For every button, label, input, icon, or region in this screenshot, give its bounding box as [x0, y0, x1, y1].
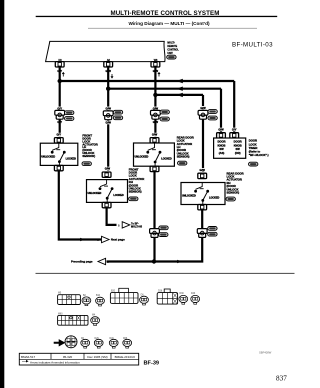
footer revision table	[19, 353, 138, 365]
junction node on bus 2	[106, 87, 110, 91]
bus 3 arrow	[177, 93, 183, 97]
header rule	[36, 16, 278, 17]
connector pin 1 on unit	[55, 62, 64, 67]
badge D6	[82, 162, 91, 166]
W1 label G/Y at door	[55, 133, 63, 137]
front RH component label	[129, 167, 144, 193]
front RH switch	[99, 180, 114, 203]
svg-text:Dec 1995 (SM): Dec 1995 (SM)	[87, 355, 107, 359]
flow arrow up	[158, 73, 160, 77]
rear RH switch	[194, 183, 209, 205]
connector view D26b oval	[94, 339, 103, 348]
svg-text:KNOB: KNOB	[234, 143, 242, 147]
door knob switch box	[214, 138, 246, 158]
rear RH component label	[227, 171, 244, 194]
svg-text:95-320: 95-320	[63, 355, 73, 359]
svg-text:(DR): (DR)	[235, 151, 241, 155]
rear RH lower inline connector	[197, 229, 207, 238]
bus wire 2 horizontal	[108, 88, 221, 90]
connector view D30 oval	[179, 295, 188, 304]
connector view D66 oval	[123, 339, 132, 348]
door knob SW pin DR	[230, 133, 239, 138]
svg-text:G/W: G/W	[200, 168, 206, 172]
svg-text:SENSOR): SENSOR)	[82, 154, 95, 158]
svg-text:G/Y: G/Y	[232, 128, 237, 132]
arrow on next page wire	[77, 238, 83, 241]
junction node on bus 1	[58, 79, 62, 83]
arrow on preceding wire	[174, 260, 180, 263]
badge M4	[160, 110, 169, 114]
bus 3 descent to rear door RH	[202, 95, 204, 111]
front LH door bottom connector	[54, 165, 63, 170]
control unit connector badge M60	[167, 55, 176, 59]
rear LH return wire down	[153, 171, 155, 262]
badge M60 timer	[249, 162, 258, 166]
badge D20	[160, 117, 169, 121]
door knob SW DR label	[234, 140, 242, 155]
flow arrow down	[111, 74, 113, 78]
W3 inline connector	[151, 110, 161, 119]
wire label G/Y	[56, 69, 64, 73]
next page triangle	[102, 236, 110, 242]
rear LH door bottom connector	[150, 166, 159, 171]
badge D30	[159, 233, 168, 237]
svg-text:G/W: G/W	[218, 128, 224, 132]
rear LH component label	[177, 135, 194, 158]
svg-text:D30: D30	[180, 293, 185, 295]
door knob SW AS label	[217, 140, 225, 155]
svg-text:SW: SW	[236, 147, 241, 151]
bus 1 arrow	[177, 79, 183, 83]
connector view M60 grid	[58, 315, 88, 325]
badge D26	[129, 197, 138, 201]
bus wire 3 horizontal	[155, 94, 203, 96]
bus 1 descent to door knob SW DR	[233, 81, 235, 133]
W2 label G/W above splice	[104, 107, 112, 111]
flow arrow up	[62, 73, 64, 77]
svg-text:BMA6-517: BMA6-517	[21, 355, 36, 359]
rear LH door lock actuator box	[134, 143, 175, 166]
connector view B20 grid	[110, 288, 138, 303]
bus 2 arrow	[177, 87, 183, 91]
svg-text:CONTROL: CONTROL	[167, 50, 179, 52]
svg-text:UNLOCKED: UNLOCKED	[41, 155, 55, 158]
wire W2 vertical	[107, 67, 109, 171]
to BF-MULTI-05 triangle	[122, 222, 130, 228]
svg-text:LOCKED: LOCKED	[209, 197, 220, 200]
junction node preceding wire	[152, 259, 156, 263]
rear RH drop label G/W	[199, 106, 207, 110]
W2 label G/W at door	[104, 167, 112, 171]
badge M5	[113, 110, 122, 114]
connector view M5 grid	[58, 295, 81, 305]
svg-text:UNLOCKED: UNLOCKED	[88, 192, 102, 195]
rear RH drop lower segment	[202, 119, 204, 172]
svg-text:BF-39: BF-39	[144, 360, 160, 366]
svg-text:SENSOR): SENSOR)	[227, 191, 240, 195]
badge B20	[159, 226, 168, 230]
rear RH return wire down	[154, 210, 202, 262]
svg-text:D40: D40	[191, 293, 196, 295]
svg-text:BMHE-2F10U0: BMHE-2F10U0	[115, 355, 136, 359]
badge D40	[208, 116, 217, 120]
svg-text:B10: B10	[96, 295, 101, 297]
W2 label G/W below splice	[104, 121, 112, 125]
connector pin 2 on unit	[104, 62, 113, 67]
connector view B2 round	[65, 336, 77, 348]
svg-text:B: B	[107, 260, 109, 264]
wire label G/W	[104, 69, 112, 73]
connector view D46 oval	[109, 339, 118, 348]
W1 label G/Y above splice	[56, 107, 64, 111]
subtitle rule	[88, 27, 257, 30]
svg-text:G/W: G/W	[106, 107, 112, 111]
svg-text:LOCKED: LOCKED	[113, 194, 124, 197]
svg-text:MULTI-05: MULTI-05	[131, 226, 143, 229]
svg-text:SBF408W: SBF408W	[259, 351, 272, 355]
rear LH lower inline connector	[150, 229, 160, 238]
svg-text:LOCKED: LOCKED	[161, 158, 172, 161]
front RH door bottom connector	[102, 202, 111, 207]
rear RH door lock actuator box	[181, 183, 225, 205]
svg-text:G/W: G/W	[152, 133, 158, 137]
wire W1 upper segment	[59, 67, 61, 111]
svg-text:“BF-U/LOCK”.): “BF-U/LOCK”.)	[249, 153, 269, 157]
connector view D26 grid	[157, 289, 177, 304]
connector view B2 oval	[82, 297, 91, 306]
badge M4	[208, 110, 217, 114]
junction node on bus 3	[153, 93, 157, 97]
amended arrow	[54, 340, 65, 346]
svg-text:DOOR: DOOR	[217, 140, 225, 144]
badge D60	[208, 232, 217, 236]
svg-text:Wiring Diagram — MULTI — (Cont: Wiring Diagram — MULTI — (Cont’d)	[128, 21, 210, 26]
bus 2 descent to door knob SW AS	[220, 89, 222, 133]
front RH return wire down	[107, 208, 117, 225]
svg-text:B: B	[118, 223, 120, 227]
preceding page wire	[107, 260, 155, 262]
door knob SW wire label G/W	[217, 128, 225, 132]
connector view D40 oval	[191, 295, 200, 304]
svg-text:KNOB: KNOB	[218, 143, 226, 147]
svg-text:REMOTE: REMOTE	[167, 46, 177, 48]
svg-text:G/W: G/W	[200, 106, 206, 110]
svg-text:Arrow indicates Amended inform: Arrow indicates Amended information	[30, 360, 80, 364]
badge M5	[65, 111, 74, 115]
front LH component label	[82, 134, 97, 158]
svg-text:Next page: Next page	[111, 238, 125, 242]
left page-edge black bar	[0, 0, 4, 388]
door knob SW pin AS	[217, 133, 226, 138]
rear RH door top connector	[198, 173, 207, 178]
svg-text:DOOR: DOOR	[234, 140, 242, 144]
door lock timer note	[249, 139, 269, 157]
svg-text:UNLOCKED: UNLOCKED	[182, 194, 196, 197]
W2 inline connector	[103, 111, 113, 120]
bus wire 1 horizontal	[60, 80, 235, 82]
rear LH switch	[146, 143, 161, 166]
svg-text:G/W: G/W	[106, 121, 112, 125]
badge B10	[208, 227, 217, 231]
door knob SW wire label G/Y	[230, 128, 238, 132]
connector view M4 oval	[91, 317, 100, 326]
badge B10	[113, 116, 122, 120]
W3 lower segment to rear LH door	[154, 119, 156, 136]
connector view labels row1	[58, 291, 196, 297]
badge B20	[65, 117, 74, 121]
svg-text:SW: SW	[219, 147, 224, 151]
svg-text:G/W: G/W	[105, 167, 111, 171]
svg-text:SENSOR): SENSOR)	[129, 190, 142, 194]
front RH door lock actuator box	[87, 180, 128, 203]
W1 inline connector	[55, 110, 65, 119]
W1 label G/Y below splice	[56, 120, 64, 124]
svg-text:MULTI-: MULTI-	[167, 42, 175, 44]
svg-text:(AS): (AS)	[219, 151, 225, 155]
connector pin 3 on unit	[151, 62, 160, 67]
svg-text:SENSOR): SENSOR)	[177, 155, 190, 159]
connector view B10 oval	[96, 297, 105, 306]
svg-text:BF-MULTI-03: BF-MULTI-03	[232, 41, 273, 48]
wire W3 upper segment	[154, 67, 156, 111]
wire label G/W	[152, 69, 160, 73]
rear RH drop label G/W lower	[198, 168, 206, 172]
W3 label G/W above splice	[152, 107, 160, 111]
rear RH door bottom connector	[198, 205, 207, 210]
svg-text:Preceding page: Preceding page	[71, 260, 93, 264]
row3 labels	[81, 338, 128, 340]
svg-text:837: 837	[276, 375, 287, 383]
W3 label G/W at door	[151, 133, 159, 137]
svg-text:B: B	[97, 238, 99, 242]
W1 lower segment to front LH door	[59, 119, 61, 136]
rear LH door top connector	[150, 138, 159, 143]
front LH return wire down	[59, 171, 101, 240]
connector view D6 oval	[140, 296, 149, 305]
front RH door top connector	[102, 172, 111, 177]
bottom separator rule	[36, 272, 295, 275]
connector view D6b oval	[81, 339, 90, 348]
multi-remote control unit box	[46, 41, 165, 61]
svg-text:UNLOCKED: UNLOCKED	[135, 155, 149, 158]
front LH door lock actuator box	[40, 143, 78, 165]
preceding page triangle	[98, 258, 106, 264]
front LH switch	[51, 143, 66, 165]
badge D46	[178, 161, 187, 165]
svg-text:LOCKED: LOCKED	[66, 158, 77, 161]
svg-text:G/Y: G/Y	[56, 133, 61, 137]
front LH door top connector	[54, 138, 63, 143]
badge D66	[226, 197, 235, 201]
rear RH drop inline connector	[198, 110, 208, 119]
W3 label G/W below splice	[152, 120, 160, 124]
